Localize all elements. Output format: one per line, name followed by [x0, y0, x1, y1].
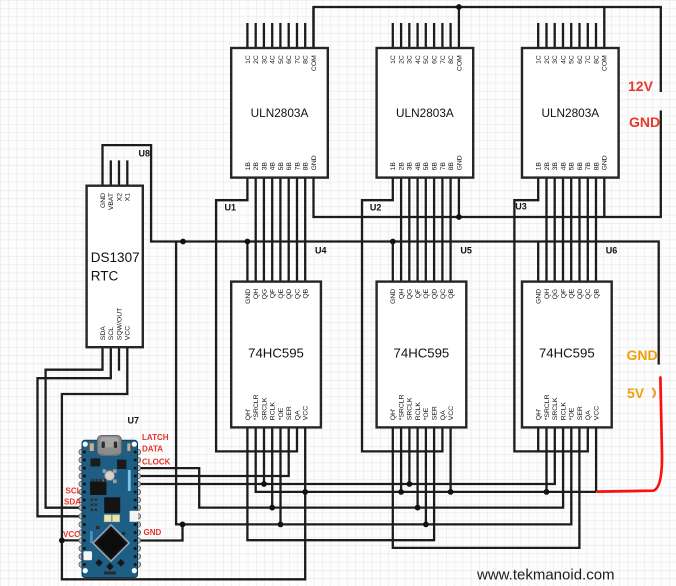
svg-text:QA: QA: [294, 410, 301, 420]
svg-text:*OE: *OE: [278, 407, 285, 420]
svg-text:QB: QB: [303, 288, 310, 298]
svg-text:RTC: RTC: [91, 269, 119, 284]
svg-text:7C: 7C: [440, 55, 447, 64]
svg-text:6B: 6B: [432, 162, 439, 171]
svg-text:6C: 6C: [432, 55, 439, 64]
svg-text:QG: QG: [407, 289, 414, 300]
svg-text:4B: 4B: [560, 162, 567, 171]
svg-text:*OE: *OE: [423, 407, 430, 420]
svg-text:SER: SER: [432, 406, 439, 420]
svg-text:ULN2803A: ULN2803A: [396, 106, 454, 120]
svg-text:QF: QF: [270, 289, 277, 298]
svg-text:8C: 8C: [303, 55, 310, 64]
svg-text:3C: 3C: [552, 55, 559, 64]
svg-text:SCL: SCL: [108, 327, 115, 340]
svg-text:GND: GND: [629, 114, 660, 130]
svg-text:U1: U1: [225, 203, 237, 213]
svg-text:VCC: VCC: [593, 406, 600, 420]
svg-text:7B: 7B: [294, 162, 301, 171]
svg-text:QG: QG: [552, 289, 559, 300]
svg-text:8B: 8B: [303, 162, 310, 171]
svg-text:2C: 2C: [544, 55, 551, 64]
svg-text:5C: 5C: [278, 55, 285, 64]
svg-text:7C: 7C: [294, 55, 301, 64]
svg-text:7B: 7B: [440, 162, 447, 171]
svg-text:SRCLK: SRCLK: [552, 397, 559, 420]
svg-text:8B: 8B: [448, 162, 455, 171]
svg-text:5B: 5B: [278, 162, 285, 171]
svg-text:COM: COM: [311, 55, 318, 71]
svg-text:5B: 5B: [569, 162, 576, 171]
svg-text:QC: QC: [440, 289, 447, 299]
svg-text:SQW/OUT: SQW/OUT: [116, 308, 123, 340]
svg-text:QD: QD: [286, 289, 293, 299]
svg-text:QB: QB: [448, 288, 455, 298]
svg-text:QH: QH: [399, 289, 406, 299]
svg-text:SDA: SDA: [64, 498, 81, 507]
svg-text:U4: U4: [315, 246, 327, 256]
svg-text:SDA: SDA: [100, 326, 107, 340]
svg-text:RCLK: RCLK: [560, 402, 567, 421]
svg-text:SRCLK: SRCLK: [407, 397, 414, 420]
svg-text:U8: U8: [139, 149, 151, 159]
svg-text:GND: GND: [100, 193, 107, 208]
svg-text:5V: 5V: [627, 385, 645, 401]
svg-text:QC: QC: [585, 289, 592, 299]
svg-text:4B: 4B: [415, 162, 422, 171]
svg-text:1B: 1B: [536, 162, 543, 171]
svg-text:*SRCLR: *SRCLR: [544, 394, 551, 420]
svg-text:12V: 12V: [628, 78, 654, 94]
svg-text:QA: QA: [440, 410, 447, 420]
svg-text:QE: QE: [569, 288, 576, 298]
svg-text:6B: 6B: [577, 162, 584, 171]
svg-text:GND: GND: [627, 347, 658, 363]
svg-text:2B: 2B: [253, 162, 260, 171]
svg-text:4C: 4C: [270, 55, 277, 64]
svg-text:1C: 1C: [536, 55, 543, 64]
svg-text:QH': QH': [245, 409, 252, 421]
svg-text:74HC595: 74HC595: [394, 346, 450, 361]
svg-text:3C: 3C: [261, 55, 268, 64]
svg-text:4C: 4C: [415, 55, 422, 64]
svg-text:QH: QH: [544, 289, 551, 299]
svg-text:2B: 2B: [544, 162, 551, 171]
svg-text:GND: GND: [456, 155, 463, 170]
svg-text:ULN2803A: ULN2803A: [541, 106, 599, 120]
svg-text:QA: QA: [585, 410, 592, 420]
svg-text:74HC595: 74HC595: [539, 346, 595, 361]
svg-text:QB: QB: [593, 288, 600, 298]
svg-text:SCL: SCL: [66, 487, 82, 496]
svg-text:GND: GND: [536, 289, 543, 304]
svg-text:GND: GND: [311, 155, 318, 170]
svg-text:8C: 8C: [448, 55, 455, 64]
svg-text:1C: 1C: [390, 55, 397, 64]
svg-text:3B: 3B: [407, 162, 414, 171]
svg-text:ULN2803A: ULN2803A: [251, 106, 309, 120]
svg-text:1B: 1B: [245, 162, 252, 171]
svg-text:5C: 5C: [569, 55, 576, 64]
svg-text:QF: QF: [415, 289, 422, 298]
svg-text:VCC: VCC: [63, 530, 80, 539]
svg-text:X1: X1: [125, 193, 132, 202]
svg-text:6C: 6C: [577, 55, 584, 64]
svg-text:2B: 2B: [399, 162, 406, 171]
svg-text:CLOCK: CLOCK: [142, 458, 171, 467]
svg-text:7C: 7C: [585, 55, 592, 64]
svg-text:4C: 4C: [560, 55, 567, 64]
svg-text:X2: X2: [116, 193, 123, 202]
svg-text:8B: 8B: [593, 162, 600, 171]
svg-text:VCC: VCC: [448, 406, 455, 420]
svg-text:U2: U2: [370, 203, 382, 213]
svg-text:QD: QD: [577, 289, 584, 299]
svg-text:3C: 3C: [407, 55, 414, 64]
svg-text:COM: COM: [456, 55, 463, 71]
svg-text:8C: 8C: [593, 55, 600, 64]
svg-text:7B: 7B: [585, 162, 592, 171]
svg-text:QE: QE: [423, 288, 430, 298]
svg-text:QF: QF: [560, 289, 567, 298]
svg-text:DATA: DATA: [142, 445, 163, 454]
svg-text:3B: 3B: [261, 162, 268, 171]
svg-text:VBAT: VBAT: [108, 193, 115, 210]
svg-text:U6: U6: [606, 246, 618, 256]
svg-text:QC: QC: [294, 289, 301, 299]
svg-text:VCC: VCC: [125, 326, 132, 340]
svg-text:SRCLK: SRCLK: [261, 397, 268, 420]
svg-text:GND: GND: [602, 155, 609, 170]
svg-text:SER: SER: [577, 406, 584, 420]
svg-text:QD: QD: [432, 289, 439, 299]
svg-text:6C: 6C: [286, 55, 293, 64]
svg-text:2C: 2C: [399, 55, 406, 64]
svg-text:GND: GND: [390, 289, 397, 304]
svg-text:5B: 5B: [423, 162, 430, 171]
svg-text:QH': QH': [536, 409, 543, 421]
svg-text:QH': QH': [390, 409, 397, 421]
svg-text:SER: SER: [286, 406, 293, 420]
svg-text:5C: 5C: [423, 55, 430, 64]
svg-text:QG: QG: [261, 289, 268, 300]
svg-text:U5: U5: [460, 246, 472, 256]
svg-text:4B: 4B: [270, 162, 277, 171]
svg-text:1B: 1B: [390, 162, 397, 171]
svg-text:U7: U7: [128, 416, 140, 426]
svg-text:DS1307: DS1307: [91, 250, 140, 265]
svg-text:2C: 2C: [253, 55, 260, 64]
svg-text:RCLK: RCLK: [270, 402, 277, 421]
svg-text:3B: 3B: [552, 162, 559, 171]
svg-text:*SRCLR: *SRCLR: [253, 394, 260, 420]
svg-text:RCLK: RCLK: [415, 402, 422, 421]
svg-text:www.tekmanoid.com: www.tekmanoid.com: [476, 567, 615, 584]
svg-text:*SRCLR: *SRCLR: [399, 394, 406, 420]
svg-text:QH: QH: [253, 289, 260, 299]
svg-text:74HC595: 74HC595: [248, 346, 304, 361]
svg-text:COM: COM: [602, 55, 609, 71]
svg-text:*OE: *OE: [569, 407, 576, 420]
svg-text:LATCH: LATCH: [142, 433, 169, 442]
svg-text:6B: 6B: [286, 162, 293, 171]
svg-text:GND: GND: [144, 528, 162, 537]
svg-text:U3: U3: [515, 202, 527, 212]
svg-text:1C: 1C: [245, 55, 252, 64]
svg-text:QE: QE: [278, 288, 285, 298]
svg-text:GND: GND: [245, 289, 252, 304]
svg-text:VCC: VCC: [303, 406, 310, 420]
